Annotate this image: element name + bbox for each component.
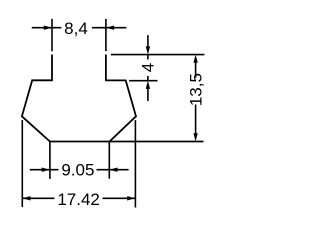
dim 8,4: right extension line bbox=[105, 19, 107, 51]
part outline: left stem bbox=[51, 55, 53, 81]
dim 9.05: left extension line bbox=[49, 142, 51, 179]
dim 4: bottom outside arrow pointing up bbox=[146, 81, 150, 89]
dim 9.05: right tail with outside arrow bbox=[97, 169, 129, 171]
part outline: left step, slope and chamfer bbox=[22, 80, 53, 141]
dim 8,4: left extension line bbox=[51, 19, 53, 51]
svg-text:9.05: 9.05 bbox=[61, 160, 94, 179]
dim 13,5: upper arrow pointing up bbox=[193, 55, 197, 63]
dim 17.42: right segment with inside arrow bbox=[103, 197, 136, 199]
part outline: right stem bbox=[105, 55, 107, 81]
part outline: right chamfer, slope and step bbox=[105, 80, 136, 141]
dim 9.05: right extension line bbox=[108, 142, 110, 179]
dim 4: lower stub of dimension line bbox=[147, 76, 149, 81]
dim 4: upper stub of dimension line bbox=[147, 55, 149, 60]
dim 17.42: right extension line bbox=[134, 120, 136, 207]
svg-text:8,4: 8,4 bbox=[64, 19, 88, 38]
dim 17.42: left extension line bbox=[21, 120, 23, 207]
dim 9.05: left tail with outside arrow bbox=[30, 169, 59, 171]
svg-text:13,5: 13,5 bbox=[187, 73, 206, 106]
dim 4: bottom extension line bbox=[129, 80, 157, 82]
dim 17.42: left segment with inside arrow bbox=[22, 197, 54, 199]
dim 4: top outside arrow pointing down bbox=[147, 35, 149, 48]
dim 8,4: left dimension line with outside arrow bbox=[32, 27, 62, 29]
svg-text:17.42: 17.42 bbox=[57, 190, 100, 209]
dim 4: top extension line (shared with 13,5) bbox=[111, 54, 205, 56]
dim 8,4: right dimension line with outside arrow bbox=[92, 27, 126, 29]
dim 13,5: lower segment and arrow pointing down bbox=[195, 105, 197, 135]
svg-text:4: 4 bbox=[139, 63, 158, 72]
part outline: bottom edge plus right extension for 13.5 bbox=[50, 141, 204, 143]
